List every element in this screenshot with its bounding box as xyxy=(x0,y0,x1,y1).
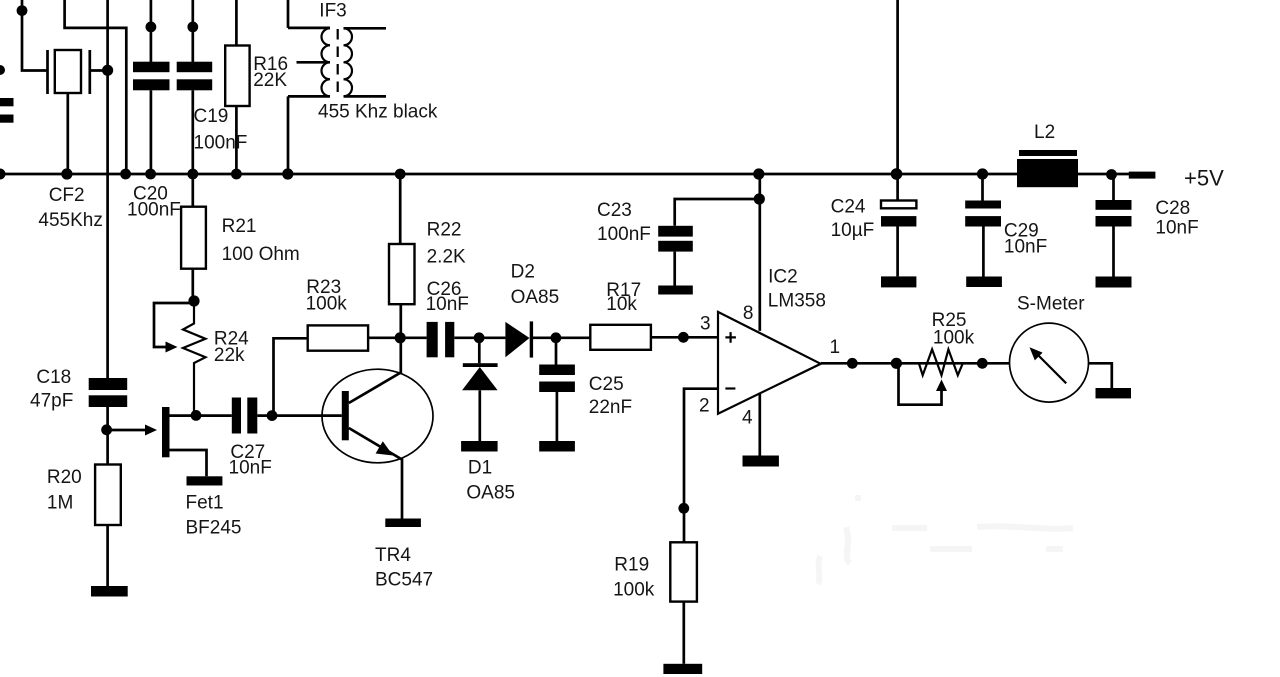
svg-text:100nF: 100nF xyxy=(127,200,181,221)
svg-text:R20: R20 xyxy=(47,467,82,488)
svg-text:22nF: 22nF xyxy=(589,397,632,418)
svg-text:3: 3 xyxy=(700,314,711,335)
svg-text:C24: C24 xyxy=(831,197,866,218)
svg-text:100nF: 100nF xyxy=(597,224,651,245)
svg-text:R19: R19 xyxy=(614,555,649,576)
svg-text:8: 8 xyxy=(743,303,754,324)
svg-text:C18: C18 xyxy=(36,367,71,388)
svg-text:22k: 22k xyxy=(214,345,245,366)
svg-text:D2: D2 xyxy=(511,262,535,283)
svg-text:100k: 100k xyxy=(933,328,975,349)
svg-text:C23: C23 xyxy=(597,200,632,221)
svg-text:LM358: LM358 xyxy=(768,291,826,312)
svg-text:455 Khz black: 455 Khz black xyxy=(318,102,438,123)
svg-text:10nF: 10nF xyxy=(1004,237,1047,258)
svg-text:10nF: 10nF xyxy=(229,458,272,479)
svg-text:CF2: CF2 xyxy=(49,185,85,206)
svg-text:10nF: 10nF xyxy=(426,294,469,315)
svg-text:IF3: IF3 xyxy=(319,1,346,22)
svg-text:C25: C25 xyxy=(589,374,624,395)
svg-text:455Khz: 455Khz xyxy=(38,210,102,231)
svg-text:S-Meter: S-Meter xyxy=(1017,294,1085,315)
svg-text:4: 4 xyxy=(742,408,753,429)
svg-text:10nF: 10nF xyxy=(1155,218,1198,239)
svg-text:IC2: IC2 xyxy=(768,267,798,288)
svg-text:OA85: OA85 xyxy=(511,287,560,308)
svg-text:R21: R21 xyxy=(222,216,257,237)
svg-text:1: 1 xyxy=(830,337,841,358)
svg-text:Fet1: Fet1 xyxy=(186,493,224,514)
svg-text:BC547: BC547 xyxy=(375,570,433,591)
svg-text:D1: D1 xyxy=(468,458,492,479)
svg-text:10k: 10k xyxy=(606,294,637,315)
svg-text:100k: 100k xyxy=(613,580,655,601)
svg-text:C19: C19 xyxy=(194,106,229,127)
svg-text:OA85: OA85 xyxy=(466,483,515,504)
svg-text:R22: R22 xyxy=(427,220,462,241)
svg-text:BF245: BF245 xyxy=(186,518,242,539)
svg-text:C28: C28 xyxy=(1155,198,1190,219)
svg-text:47pF: 47pF xyxy=(30,391,73,412)
svg-text:22K: 22K xyxy=(253,70,287,91)
svg-text:10µF: 10µF xyxy=(831,220,875,241)
svg-text:2: 2 xyxy=(699,396,710,417)
svg-text:TR4: TR4 xyxy=(375,545,411,566)
svg-text:+5V: +5V xyxy=(1184,166,1224,191)
svg-text:L2: L2 xyxy=(1034,122,1055,143)
svg-text:100 Ohm: 100 Ohm xyxy=(222,244,300,265)
svg-text:1M: 1M xyxy=(47,493,73,514)
svg-text:2.2K: 2.2K xyxy=(427,247,466,268)
svg-text:100k: 100k xyxy=(306,294,348,315)
svg-text:100nF: 100nF xyxy=(194,133,248,154)
